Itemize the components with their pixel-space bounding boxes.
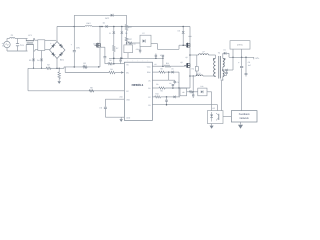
svg-text:HF500-1: HF500-1 <box>132 83 144 87</box>
svg-text:D6: D6 <box>125 32 127 35</box>
svg-text:D3: D3 <box>29 59 31 62</box>
svg-text:C9: C9 <box>248 61 250 64</box>
svg-text:R9: R9 <box>156 83 158 86</box>
svg-text:D7: D7 <box>142 32 144 35</box>
svg-text:U3: U3 <box>182 91 184 94</box>
svg-text:C3: C3 <box>177 81 179 84</box>
svg-text:C7: C7 <box>160 54 162 57</box>
svg-text:D8: D8 <box>178 30 180 33</box>
svg-text:R7: R7 <box>116 47 118 50</box>
svg-text:D9: D9 <box>171 68 173 71</box>
svg-text:Q2: Q2 <box>185 56 187 59</box>
svg-text:D11: D11 <box>201 85 204 88</box>
svg-text:C2: C2 <box>99 106 101 109</box>
svg-text:D1: D1 <box>103 22 105 25</box>
svg-text:Q3: Q3 <box>180 61 182 64</box>
svg-text:Q1: Q1 <box>93 43 96 46</box>
svg-text:R6: R6 <box>90 86 92 89</box>
svg-text:D2: D2 <box>223 48 225 51</box>
svg-text:CIN: CIN <box>76 47 80 50</box>
svg-text:R9: R9 <box>160 89 162 92</box>
svg-text:C4: C4 <box>169 82 171 85</box>
svg-text:R5: R5 <box>109 59 111 62</box>
svg-text:D4: D4 <box>37 59 39 62</box>
svg-text:Feedback: Feedback <box>239 113 251 116</box>
svg-text:R2: R2 <box>47 64 49 67</box>
svg-text:R3: R3 <box>83 62 85 65</box>
svg-text:R8: R8 <box>160 68 162 71</box>
svg-text:47R+C: 47R+C <box>237 44 243 47</box>
svg-text:C6: C6 <box>154 63 156 66</box>
svg-text:U2: U2 <box>212 107 214 110</box>
svg-text:R4: R4 <box>110 68 112 71</box>
svg-text:Z1: Z1 <box>109 32 111 35</box>
svg-text:R10: R10 <box>155 92 158 95</box>
svg-text:Network: Network <box>240 117 250 120</box>
svg-text:R12: R12 <box>166 62 169 65</box>
svg-text:GND: GND <box>126 116 131 119</box>
svg-text:LMS: LMS <box>86 22 91 25</box>
